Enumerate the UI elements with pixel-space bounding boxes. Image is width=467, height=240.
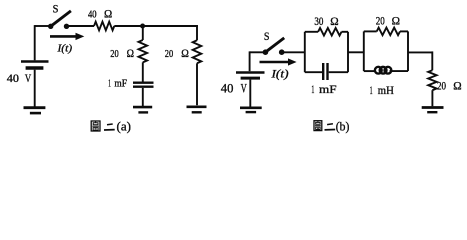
switch S blade (b) <box>265 38 284 52</box>
resistor R 40ohm zigzag (a) <box>94 22 114 31</box>
label 20 ohm box2 (b) <box>376 14 400 28</box>
caption figure 2(b) CJK glyph tu <box>314 121 322 131</box>
svg-text:V: V <box>25 71 32 85</box>
wire battery stem (b) <box>249 80 251 107</box>
svg-text:mF: mF <box>319 84 337 96</box>
svg-text:(a): (a) <box>117 118 131 133</box>
svg-text:V: V <box>241 82 247 96</box>
label 1 mH (b) <box>370 85 394 97</box>
wire left rail (b) <box>249 51 251 71</box>
svg-text:mF: mF <box>114 79 127 90</box>
ground under battery (b) <box>240 108 262 112</box>
label 20 ohm right (b) <box>437 79 462 93</box>
inductor 1mH coil loops (b) <box>375 67 391 74</box>
label 40 ohm value (a) <box>88 8 112 20</box>
parallel box2 frame wires (b) <box>364 31 408 71</box>
wire right branch lower (a) <box>196 63 198 105</box>
capacitor 1mF bottom plate (a) <box>133 85 154 87</box>
caption figure 2(b) CJK glyph er <box>325 124 336 130</box>
label 20 ohm right (a) <box>165 48 189 60</box>
svg-text:40: 40 <box>221 82 234 96</box>
node junction dot (a) <box>140 24 145 29</box>
svg-text:Ω: Ω <box>104 8 112 20</box>
ground under right resistor (a) <box>187 107 207 113</box>
svg-text:S: S <box>53 1 59 15</box>
ground under right resistor (b) <box>422 108 444 113</box>
svg-text:Ω: Ω <box>330 14 338 28</box>
ground under battery (a) <box>24 108 46 113</box>
resistor 30ohm zigzag (b) <box>318 28 341 36</box>
wire left rail (a) <box>34 25 36 60</box>
svg-text:40: 40 <box>88 9 97 20</box>
label 40 V (a) <box>7 71 32 85</box>
wire right rail lower (b) <box>431 90 433 106</box>
label 30 ohm (b) <box>314 14 338 28</box>
wire resistor to right corner (a) <box>114 25 198 27</box>
label 40 V (b) <box>221 82 247 96</box>
caption figure 2(a) CJK glyph tu <box>91 121 100 131</box>
switch S right contact dot (a) <box>64 24 69 29</box>
svg-text:40: 40 <box>7 71 19 85</box>
svg-text:1: 1 <box>311 84 314 96</box>
battery 40V bottom plate (a) <box>26 66 44 69</box>
svg-text:20: 20 <box>437 81 446 93</box>
switch S blade (a) <box>51 11 71 26</box>
wire box1 to box2 (b) <box>348 51 364 53</box>
svg-text:30: 30 <box>314 16 323 28</box>
capacitor 1mF top plate (a) <box>133 81 154 83</box>
capacitor 1mF right plate (b) <box>326 63 328 80</box>
wire top rail left segment (b) <box>250 51 263 53</box>
wire box2 to right corner (b) <box>408 51 432 53</box>
wire capacitor to ground (a) <box>142 88 144 106</box>
current arrow I(t) (b) <box>260 58 297 65</box>
resistor 20ohm right zigzag (b) <box>428 70 436 90</box>
wire right rail upper (b) <box>431 51 433 70</box>
label 1 mF (b) <box>311 84 336 96</box>
wire right branch upper (a) <box>196 25 198 40</box>
wire middle branch upper (a) <box>142 26 144 40</box>
svg-text:(b): (b) <box>336 118 350 133</box>
battery 40V top plate (a) <box>21 60 49 63</box>
svg-text:20: 20 <box>165 49 173 60</box>
switch S left contact dot (a) <box>48 24 53 29</box>
label 20 ohm middle (a) <box>110 48 134 60</box>
parallel box1 frame wires (b) <box>305 32 348 72</box>
svg-text:Ω: Ω <box>127 48 134 60</box>
caption figure 2(a) CJK glyph er <box>104 124 115 130</box>
svg-text:I(t): I(t) <box>56 42 72 54</box>
wire top rail left segment (a) <box>35 25 49 27</box>
ground under capacitor branch (a) <box>133 107 152 112</box>
label 1 mF (a) <box>108 79 127 90</box>
capacitor 1mF left plate (b) <box>322 63 324 80</box>
switch S left contact dot (b) <box>263 49 269 55</box>
wire switch to resistor (a) <box>67 25 95 27</box>
wire battery stem (a) <box>34 70 36 107</box>
svg-text:S: S <box>264 31 270 43</box>
svg-text:Ω: Ω <box>392 14 400 28</box>
battery 40V bottom plate (b) <box>241 77 260 80</box>
svg-text:Ω: Ω <box>181 48 189 60</box>
svg-text:mH: mH <box>378 85 394 97</box>
svg-text:Ω: Ω <box>453 79 461 93</box>
svg-text:20: 20 <box>376 16 385 28</box>
svg-text:I(t): I(t) <box>270 68 288 80</box>
resistor 20ohm box2 zigzag (b) <box>377 28 400 36</box>
resistor 20ohm middle zigzag (a) <box>139 40 148 62</box>
wire resistor to capacitor (a) <box>142 62 144 81</box>
wire switch to box1 (b) <box>282 51 305 53</box>
svg-text:1: 1 <box>370 85 373 97</box>
resistor 20ohm right zigzag (a) <box>193 40 202 63</box>
svg-text:1: 1 <box>108 79 111 90</box>
switch S right contact dot (b) <box>279 49 285 55</box>
current arrow I(t) (a) <box>50 33 84 40</box>
svg-text:20: 20 <box>110 49 118 60</box>
battery 40V top plate (b) <box>236 71 265 74</box>
